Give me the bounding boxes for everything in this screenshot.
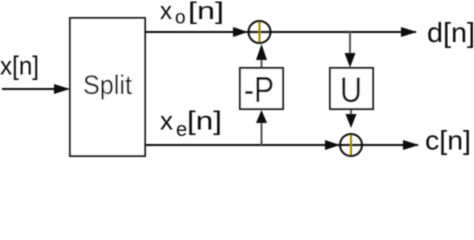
- svg-text:U: U: [340, 71, 362, 110]
- svg-text:x: x: [160, 106, 173, 136]
- svg-text:-P: -P: [244, 69, 274, 110]
- svg-text:[n]: [n]: [188, 0, 224, 25]
- svg-text:Split: Split: [83, 70, 132, 100]
- svg-text:x[n]: x[n]: [0, 51, 39, 81]
- svg-text:c[n]: c[n]: [425, 126, 471, 156]
- svg-text:o: o: [175, 8, 186, 29]
- svg-text:d[n]: d[n]: [427, 17, 474, 48]
- svg-text:e: e: [176, 119, 187, 141]
- svg-text:[n]: [n]: [187, 106, 222, 136]
- svg-text:x: x: [160, 0, 172, 25]
